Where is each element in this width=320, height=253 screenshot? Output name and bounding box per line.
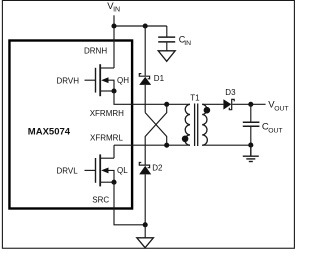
label XFRMRL	[90, 134, 123, 143]
wire secondary bottom to COUT ground	[202, 144, 251, 146]
polarity dot secondary	[204, 107, 211, 114]
wire COUT drop	[250, 104, 252, 121]
svg-text:T1: T1	[190, 93, 200, 102]
svg-text:DRVL: DRVL	[57, 167, 79, 176]
svg-text:IN: IN	[184, 40, 191, 47]
wire D3 to VOUT	[232, 103, 265, 105]
label DRNH	[84, 47, 107, 56]
anode triangle	[139, 166, 151, 175]
label QH	[117, 76, 129, 85]
svg-text:DRNH: DRNH	[84, 47, 107, 56]
drain lead	[101, 67, 114, 69]
transistor QL	[85, 145, 117, 186]
label DRVL	[57, 167, 79, 176]
wire XFRMRL from QL drain to transformer	[114, 144, 190, 146]
source junction dot	[111, 180, 116, 185]
svg-text:OUT: OUT	[274, 106, 288, 113]
wire CIN drop	[166, 26, 168, 37]
core	[194, 104, 196, 147]
node junction dot ground	[143, 222, 148, 227]
node junction dot XFRMRH	[164, 102, 169, 107]
anode triangle	[139, 77, 151, 85]
drain wire up to XFRMRL	[113, 145, 115, 158]
svg-text:DRVH: DRVH	[57, 77, 80, 86]
wire COUT to ground node	[250, 127, 252, 145]
source junction dot	[111, 88, 116, 93]
ground CIN (triangle)	[158, 51, 175, 62]
cathode bar with hooks	[139, 74, 149, 79]
svg-text:QH: QH	[117, 76, 129, 85]
label D3	[225, 88, 236, 97]
node VIN label	[107, 1, 120, 14]
label VOUT	[268, 100, 288, 113]
polarity dot primary	[182, 136, 189, 143]
label D2	[152, 164, 163, 173]
diode D2 (Schottky, cathode up)	[139, 163, 151, 225]
wire VIN rail down to QH drain	[113, 15, 115, 68]
wire ground stub	[144, 225, 146, 238]
label MAX5074	[28, 127, 71, 138]
svg-text:OUT: OUT	[268, 128, 282, 135]
gate lead	[85, 169, 96, 171]
label CIN	[179, 34, 191, 47]
arrow	[108, 80, 114, 91]
cathode bar with hooks	[139, 163, 149, 168]
label D1	[154, 74, 165, 83]
gate bar	[95, 68, 97, 93]
transformer T1	[182, 93, 210, 146]
wire QH source to XFRMRH	[114, 91, 190, 104]
svg-text:MAX5074: MAX5074	[28, 127, 71, 138]
svg-text:D3: D3	[225, 88, 236, 97]
wire top rail VIN to CIN	[114, 25, 167, 27]
node junction dot VIN	[111, 23, 116, 28]
node junction dot secondary return	[248, 143, 253, 148]
label XFRMRH	[90, 109, 124, 118]
ground main (triangle)	[137, 238, 154, 248]
transistor QH	[85, 64, 117, 96]
primary winding	[185, 104, 190, 145]
node junction dot D1 tap	[143, 23, 148, 28]
diode D1 (Schottky, cathode up)	[139, 26, 151, 113]
label COUT	[262, 122, 283, 135]
capacitor COUT	[243, 122, 260, 126]
svg-text:D1: D1	[154, 74, 165, 83]
node junction dot VOUT	[248, 102, 253, 107]
label QL	[117, 166, 128, 175]
wire crossover: XFRMRH node to D2	[145, 104, 167, 165]
label DRVH	[57, 77, 80, 86]
svg-text:XFRMRL: XFRMRL	[90, 134, 123, 143]
svg-text:IN: IN	[113, 7, 120, 14]
source lead	[101, 90, 114, 92]
wire CIN to ground	[166, 43, 168, 51]
channel bar	[99, 64, 101, 96]
arrow	[108, 170, 114, 182]
wire SRC to ground node	[114, 182, 145, 225]
ground COUT (earth bars)	[243, 145, 259, 161]
svg-text:D2: D2	[152, 164, 163, 173]
drain lead	[101, 157, 114, 159]
capacitor CIN	[158, 37, 175, 42]
channel bar	[99, 154, 101, 186]
diode D3 (Schottky, pointing right)	[223, 99, 234, 110]
cathode bar with hooks	[229, 99, 234, 109]
node junction dot XFRMRL	[164, 143, 169, 148]
gate bar	[95, 158, 97, 183]
gate lead	[85, 79, 96, 81]
svg-text:SRC: SRC	[92, 196, 109, 205]
wire secondary top to D3	[202, 103, 223, 105]
svg-text:QL: QL	[117, 166, 128, 175]
label SRC	[92, 196, 109, 205]
svg-text:XFRMRH: XFRMRH	[90, 109, 124, 118]
wire crossover: D1 to XFRMRL node	[145, 113, 167, 146]
IC box U1 MAX5074	[9, 41, 132, 209]
label T1	[190, 93, 200, 102]
secondary winding	[202, 104, 207, 145]
source lead	[101, 181, 114, 183]
